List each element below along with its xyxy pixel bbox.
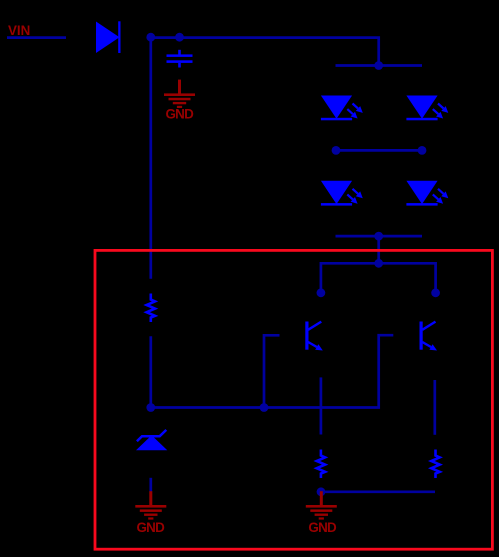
svg-text:VIN: VIN: [8, 23, 30, 38]
svg-text:GND: GND: [165, 107, 194, 122]
svg-text:GND: GND: [308, 520, 337, 535]
svg-text:GND: GND: [136, 520, 165, 535]
